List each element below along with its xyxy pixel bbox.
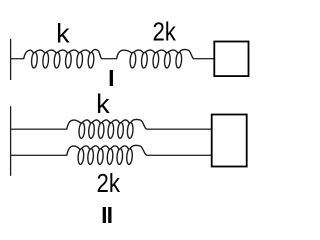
svg-text:2k: 2k [152, 16, 176, 46]
wire between springs, system I [102, 58, 117, 60]
wall / fixed support, system II [10, 106, 12, 176]
spring k, system I [24, 50, 103, 68]
lower wire: spring to block, system II [147, 154, 212, 156]
upper wire: spring to block, system II [147, 128, 212, 130]
svg-text:I: I [108, 65, 114, 91]
wire: wall to spring k, system I [11, 58, 25, 60]
mass block, system II [212, 115, 247, 167]
svg-text:k: k [56, 18, 70, 48]
spring k, system II upper [67, 119, 147, 138]
svg-text:II: II [101, 202, 113, 228]
spring 2k, system I [117, 50, 195, 68]
svg-text:2k: 2k [97, 168, 121, 198]
mass block, system I [214, 42, 248, 77]
upper wire: wall to spring k, system II [11, 128, 68, 130]
svg-text:k: k [96, 89, 110, 119]
wall / fixed support, system I [10, 39, 12, 80]
lower wire: wall to spring 2k, system II [11, 154, 68, 156]
wire: spring 2k to block, system I [194, 58, 214, 60]
spring 2k, system II lower [67, 145, 147, 164]
